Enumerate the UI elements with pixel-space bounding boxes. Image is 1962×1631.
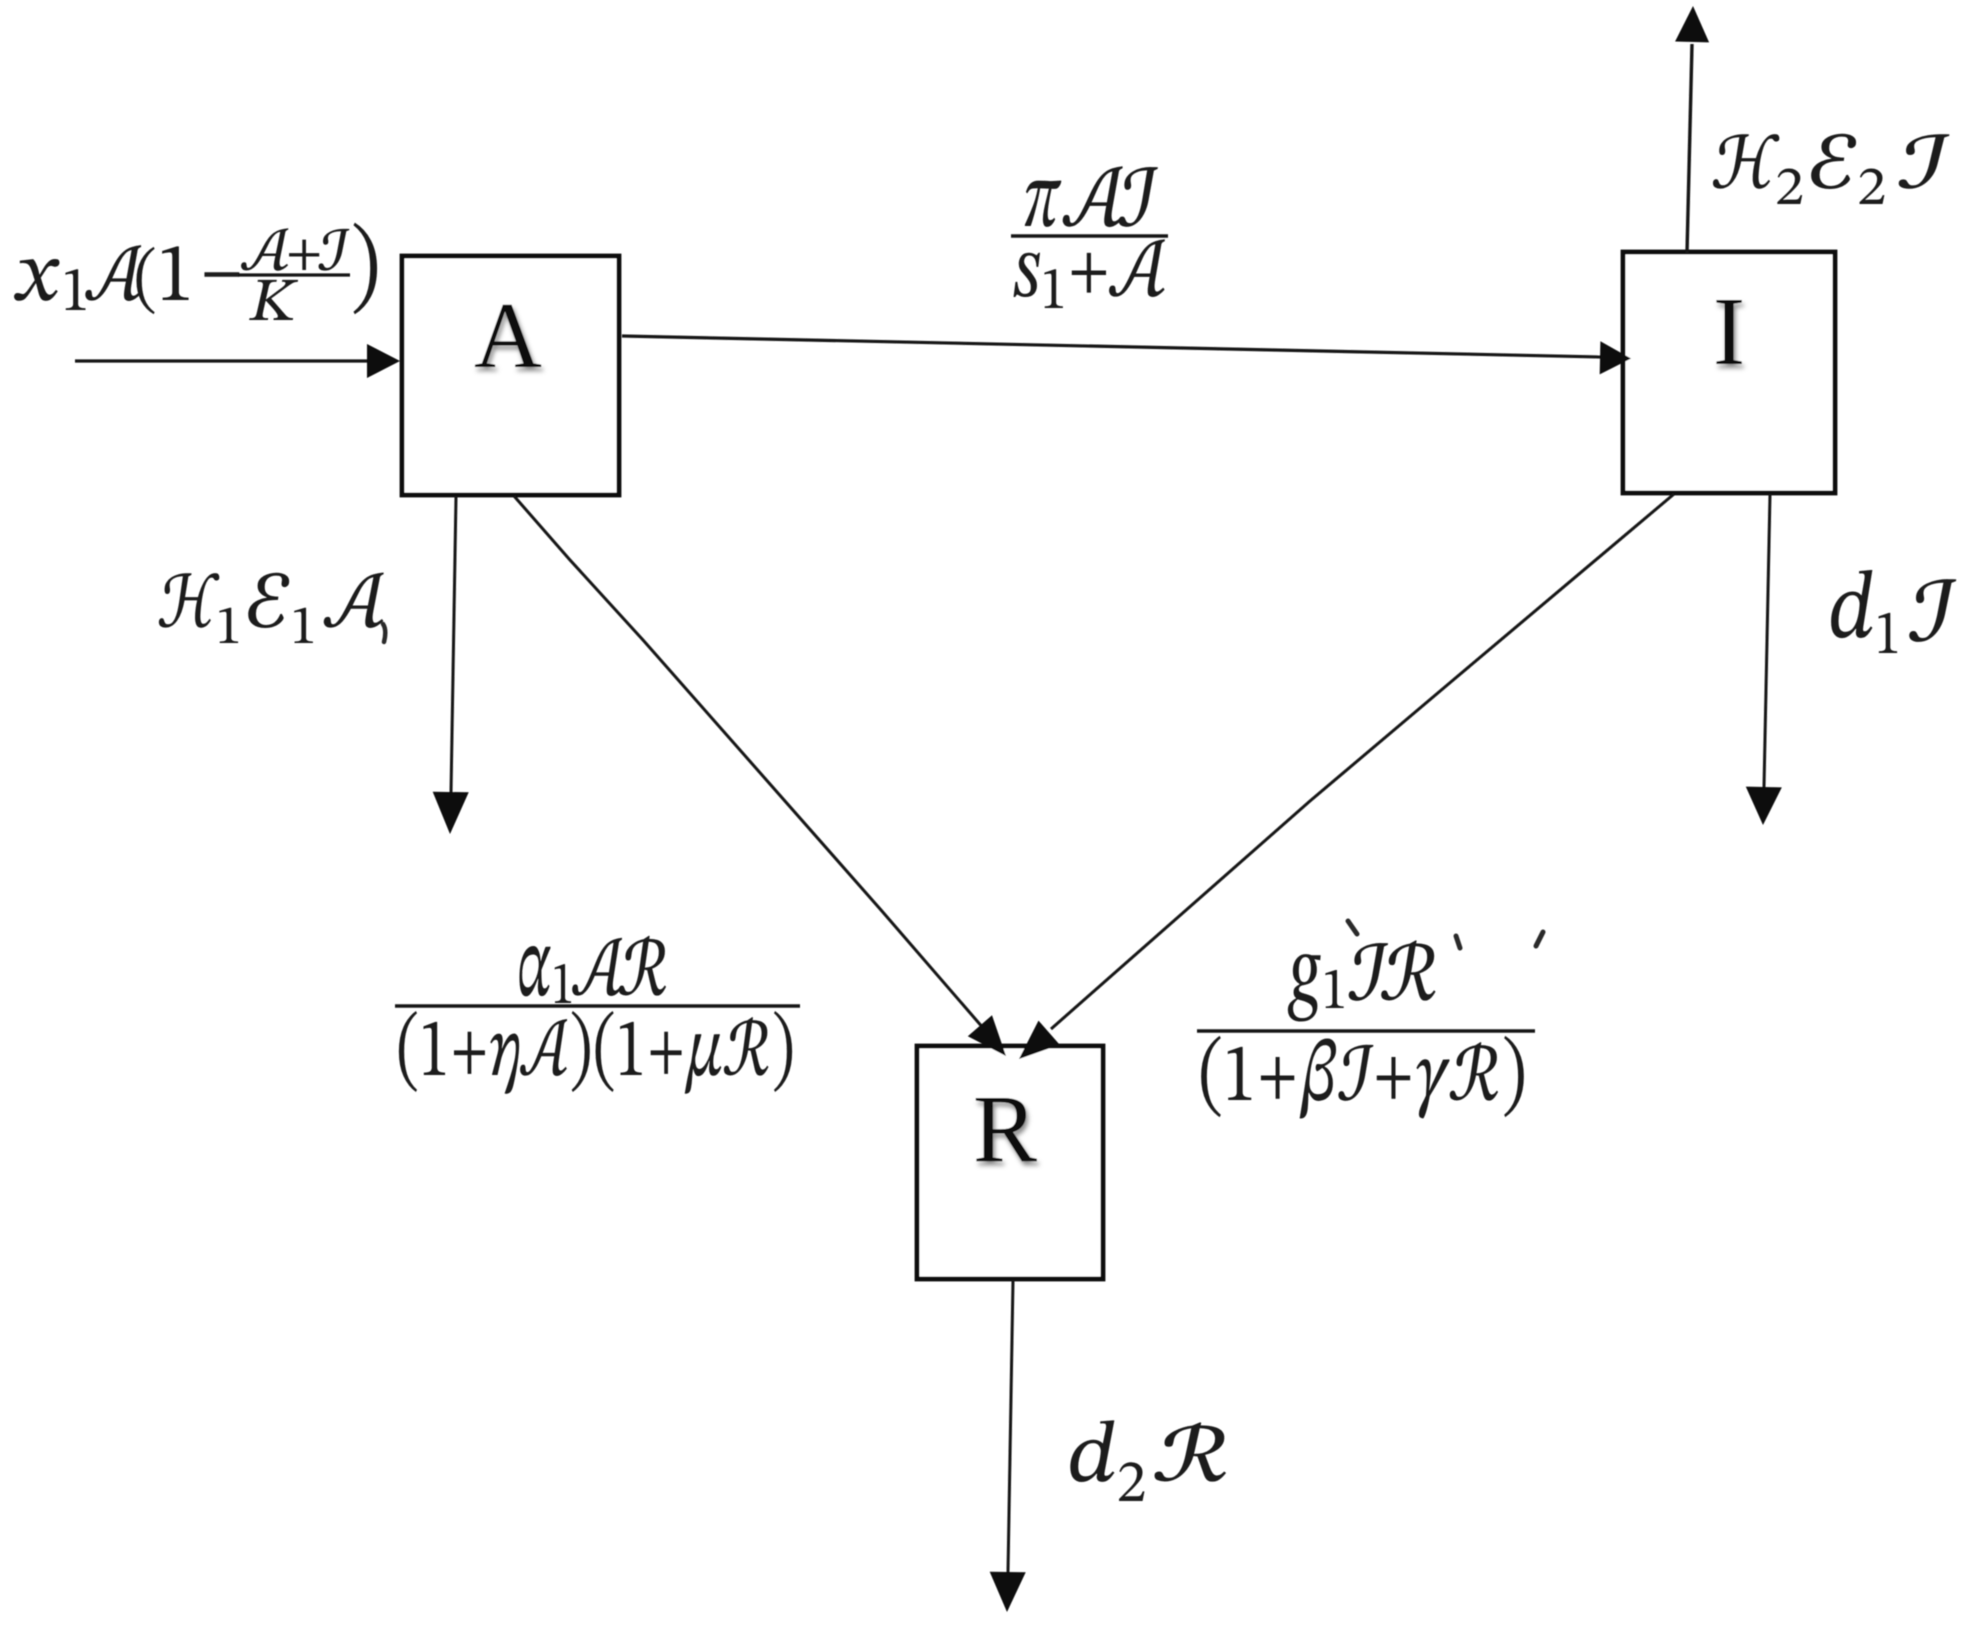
svg-text:A: A (474, 284, 542, 388)
edge label: fraction a1AR/((1+etaA)(1+muR)) on A to R arrow (519, 936, 666, 1003)
edge label: fraction g1IR/(1+betaI+gammaR) on I to R arrow (1288, 940, 1436, 1021)
wire: death arrow down out of I (1764, 494, 1770, 787)
svg-text:I: I (1713, 278, 1745, 385)
wire: harvest arrow down out of A (451, 496, 456, 793)
edge label: harvest term H2E2I (1713, 134, 1949, 204)
wire: predation arrow A to R (514, 496, 984, 1029)
stray tick marks near g1IR (1348, 921, 1357, 934)
stray comma after H1E1A (383, 624, 385, 642)
wire: recruitment arrow into A (75, 359, 370, 362)
compartment box R (917, 1046, 1103, 1279)
wire: death arrow down out of R (1008, 1280, 1013, 1572)
compartment box A (402, 256, 619, 495)
wire: predation arrow I to R (1051, 494, 1674, 1029)
edge label: death term d2R (1070, 1420, 1226, 1501)
svg-text:R: R (973, 1075, 1037, 1182)
wire: transfer arrow A to I (622, 336, 1601, 357)
edge label: fraction piAI/(s1+A) on A to I arrow (1025, 166, 1158, 227)
wire: harvest arrow up out of I (1687, 44, 1692, 253)
edge label: harvest term H1E1A (159, 572, 384, 643)
source label: logistic growth term x1A(1-(A+I)/K) (14, 245, 239, 314)
edge label: death term d1I (1831, 570, 1956, 653)
compartment box I (1623, 252, 1835, 493)
